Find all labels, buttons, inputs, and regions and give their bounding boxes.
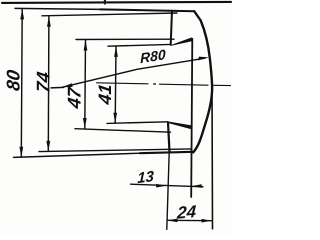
small ink mark on border line (104, 0, 106, 5)
arrowhead Ø47 top (up) (84, 40, 88, 51)
svg-text:24: 24 (176, 202, 197, 223)
arrowhead R80 leader (points right at arc) (198, 57, 209, 61)
arrowhead 13 left (points right) (156, 184, 166, 188)
arrowhead Ø74 bottom (down) (46, 141, 50, 152)
figure top border line (2, 2, 231, 3)
svg-text:13: 13 (137, 168, 154, 187)
part conical cavity mouth wedge, top (170, 37, 191, 45)
extension line top of Ø41 (108, 44, 170, 46)
svg-text:74: 74 (33, 70, 54, 94)
part flange inner face vertical + extension down for 13 dim (191, 39, 192, 197)
arrowhead Ø80 bottom (down) (19, 147, 23, 158)
svg-text:R80: R80 (140, 46, 166, 66)
extension line bottom of Ø80 (thin left part) (14, 153, 141, 157)
part bottom rim edge (thick) (140, 152, 193, 153)
extension line bottom of Ø47 (75, 129, 171, 133)
svg-text:41: 41 (95, 83, 115, 107)
part top right chamfer corner (194, 11, 201, 20)
dimension line Ø74 (vertical) (47, 16, 50, 151)
arrowhead 24 right (points right) (202, 219, 212, 223)
dimension line 24 (horizontal) (167, 219, 212, 221)
part inner cavity wall, bottom vertical (168, 122, 170, 152)
extension line down from cavity wall for 13/24 dims (167, 152, 169, 229)
arrowhead Ø74 top (up) (47, 16, 51, 27)
svg-text:80: 80 (3, 68, 24, 92)
leader line of R80 (63, 58, 206, 87)
part top rim edge (thick) (100, 9, 194, 11)
outer convex face arc R80 (193, 21, 212, 153)
dimension line 13 (horizontal) (131, 184, 203, 187)
part inner cavity wall, top vertical (171, 11, 172, 45)
arrowhead 24 left (points left) (167, 219, 177, 223)
dimension line Ø41 (vertical) (114, 46, 117, 123)
arrowhead 13 right (points left) (192, 184, 202, 188)
part conical cavity mouth wedge, bottom (167, 121, 192, 129)
arrowhead Ø41 top (up) (114, 46, 118, 57)
extension line from arc apex down for 24 dim (211, 86, 214, 229)
arc center mark tick (51, 86, 64, 89)
arrowhead Ø80 top (up) (20, 9, 24, 20)
extension line top of Ø74 (42, 13, 177, 16)
dimension line Ø80 (vertical) (20, 9, 23, 157)
center line (dash-dot) (97, 83, 149, 84)
extension line bottom of Ø74 (39, 149, 191, 152)
extension line top of Ø80 (part top edge, thin left part) (15, 8, 100, 9)
arrowhead at R80 leader start (points at arc center) (62, 83, 73, 87)
dimension line Ø47 (vertical) (84, 40, 87, 129)
arrowhead Ø41 bottom (down) (113, 113, 117, 124)
extension line top of Ø47 (76, 38, 174, 40)
svg-text:47: 47 (64, 84, 85, 110)
extension line bottom of Ø41 (107, 122, 167, 124)
arrowhead Ø47 bottom (down) (83, 118, 87, 129)
